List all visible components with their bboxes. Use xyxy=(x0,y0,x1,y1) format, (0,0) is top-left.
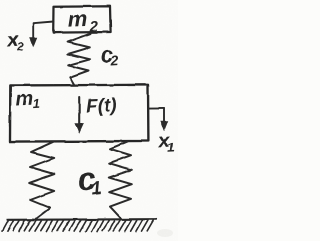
svg-text:m: m xyxy=(15,88,34,111)
label F(t) xyxy=(86,95,118,118)
coordinate arrow x2 xyxy=(32,23,34,39)
label m1 xyxy=(15,87,40,112)
svg-text:m: m xyxy=(67,6,87,32)
svg-text:1: 1 xyxy=(90,176,102,198)
svg-text:1: 1 xyxy=(166,139,174,154)
wire from m1 to x1 arrow xyxy=(148,107,164,109)
svg-text:1: 1 xyxy=(32,96,40,111)
spring c1 left xyxy=(29,142,54,219)
spring c2 xyxy=(68,34,91,85)
ground hatching xyxy=(2,220,153,231)
label x1 xyxy=(157,129,175,155)
wire from m2 to x2 arrow xyxy=(33,22,53,24)
spring c1 right xyxy=(109,142,132,219)
faint smudge bottom right xyxy=(157,229,173,237)
label c2 xyxy=(100,42,119,69)
svg-text:2: 2 xyxy=(109,52,119,68)
label C1 xyxy=(76,160,103,200)
ground line xyxy=(7,218,156,221)
svg-text:F(t): F(t) xyxy=(86,95,118,118)
label m2 xyxy=(67,6,99,37)
mass m1 box xyxy=(10,85,148,142)
mass m2 box xyxy=(53,6,110,32)
coordinate arrow x1 xyxy=(163,108,165,122)
label x2 xyxy=(5,28,24,54)
force arrow F(t) xyxy=(78,97,80,127)
svg-text:2: 2 xyxy=(16,41,25,54)
